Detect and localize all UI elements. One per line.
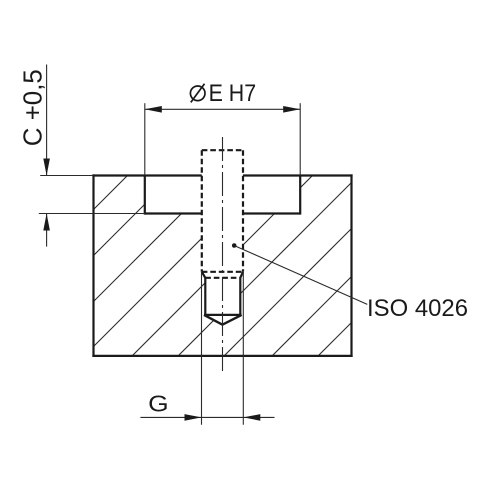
G dimension line [140, 416, 274, 418]
svg-text:E H7: E H7 [209, 80, 257, 107]
svg-text:C +0,5: C +0,5 [20, 69, 48, 146]
C dimension line upper [46, 65, 48, 176]
C extension line bottom [39, 213, 145, 215]
hatch line 5 [122, 165, 323, 366]
pilot left wall [204, 278, 206, 315]
counterbore right wall [299, 176, 301, 215]
hatch line 9 [308, 165, 490, 366]
leader dot [232, 243, 237, 248]
thread end line [205, 277, 240, 279]
hatch lines (section hatching of block) [0, 165, 490, 366]
right edge [350, 174, 352, 357]
hatch line 3 [29, 165, 230, 366]
hatch line 1 [0, 165, 138, 366]
block outline (section) [92, 174, 352, 357]
hatch line 8 [262, 165, 463, 366]
diameter symbol [190, 84, 205, 103]
centerline [222, 137, 224, 372]
thread left line [201, 150, 203, 272]
diameter arrow right [283, 106, 300, 113]
threaded hole (hidden/dashed) [202, 150, 243, 278]
svg-text:G: G [148, 391, 169, 417]
G arrow pointing right [185, 414, 202, 421]
counterbore bottom right segment [243, 212, 300, 214]
top face right segment [243, 174, 353, 176]
leader line [236, 246, 368, 304]
diameter dimension extension line left [144, 103, 146, 175]
C arrow down [43, 159, 50, 176]
thread bottom line [202, 271, 243, 273]
thread top line [202, 149, 243, 151]
hatch line 2 [0, 165, 184, 366]
hatch line 6 [168, 165, 369, 366]
chamfer right [240, 272, 243, 278]
counterbore bottom left segment [145, 212, 202, 214]
hatch line 4 [74, 165, 275, 366]
C arrow up [43, 214, 50, 231]
chamfer left [202, 272, 206, 278]
G extension line left [201, 272, 203, 425]
counterbore left wall [144, 176, 146, 215]
G extension line right [242, 272, 244, 425]
diameter dimension extension line right [299, 103, 301, 175]
pilot bottom shoulder [204, 314, 242, 316]
thread right line [242, 150, 244, 272]
hatch line 7 [214, 165, 415, 366]
C extension line top [40, 175, 93, 177]
top face left segment [92, 174, 201, 176]
C dimension line lower [46, 214, 48, 247]
bottom edge [92, 355, 352, 357]
svg-text:ISO 4026: ISO 4026 [367, 295, 468, 322]
diameter arrow left [145, 106, 162, 113]
diameter dimension line [145, 108, 300, 110]
left edge [92, 174, 94, 357]
drill point V [204, 315, 242, 325]
pilot right wall [239, 278, 241, 315]
G arrow pointing left [243, 414, 260, 421]
pilot hole [202, 272, 243, 325]
